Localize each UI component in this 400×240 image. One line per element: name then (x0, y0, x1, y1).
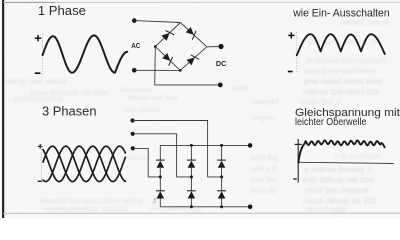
wire phase 3 feed (133, 148, 161, 177)
wire DC positive bus (160, 144, 250, 146)
axis (3-phase graph, dotted vertical) (40, 144, 42, 184)
waveform: phase L1 sine (43, 146, 125, 181)
axis (DC graph, vertical) (297, 139, 299, 183)
node DC output plus (218, 44, 223, 49)
wire bridge arm top-left (155, 23, 180, 47)
svg-text:1 Phase: 1 Phase (38, 3, 86, 18)
diode D5 (leg1 upper) (156, 160, 165, 168)
page spine bar (left edge) (2, 0, 4, 218)
wire leg3 upper segment (221, 145, 223, 160)
wire leg2 upper segment (190, 145, 192, 160)
wire leg2 lower segment (190, 198, 192, 206)
node DC bus plus terminal (248, 143, 253, 148)
waveform: DC with ripple (298, 140, 384, 162)
node phase node leg1 (159, 175, 162, 178)
wire leg3 middle segment (221, 168, 223, 191)
plus sign (rectified graph) (288, 32, 294, 38)
waveform: single-phase sine (43, 35, 128, 72)
svg-text:DC: DC (216, 61, 227, 68)
wire leg1 middle segment (159, 168, 161, 191)
time axis (DC graph, horizontal) (298, 162, 393, 163)
diode D10 (leg3 lower) (217, 191, 226, 199)
bleed-through text from reverse page (3, 18, 389, 214)
diode D9 (leg2 lower) (187, 191, 196, 199)
wire leg1 lower segment (159, 198, 161, 206)
node DC bus minus terminal (248, 205, 253, 210)
diode D3 (left-to-bottom arm) (162, 53, 172, 66)
node phase node leg3 (220, 175, 223, 178)
wire bridge arm top-right (180, 23, 206, 47)
minus tick (DC graph) (293, 178, 297, 180)
wire bridge arm bottom-right (180, 47, 207, 71)
diode D2 (top-to-right arm) (186, 27, 196, 40)
node phase input 3 (131, 146, 135, 150)
diode D1 (left-to-top arm) (161, 30, 174, 40)
wire bridge to DC plus (207, 46, 219, 48)
wire leg2 middle segment (190, 168, 192, 191)
node AC input top (132, 18, 137, 23)
wire leg1 upper segment (159, 145, 161, 160)
wire AC top to bridge (134, 21, 180, 23)
diode D6 (leg2 upper) (187, 160, 196, 168)
waveform: full-wave rectified humps (297, 34, 385, 55)
plus tick (DC graph) (295, 143, 302, 145)
wire phase 2 feed (133, 134, 192, 177)
wire bridge left to DC minus (155, 47, 219, 85)
node phase input 1 (130, 118, 134, 122)
wire phase 1 feed (133, 121, 222, 177)
svg-text:wie Ein- Ausschalten: wie Ein- Ausschalten (292, 8, 389, 20)
waveform: phase L2 sine (43, 146, 125, 181)
axis (rectified graph, dotted vertical) (296, 32, 298, 74)
minus sign (1-phase graph) (35, 72, 41, 74)
wire DC negative bus (160, 206, 250, 208)
node phase node leg2 (190, 175, 193, 178)
svg-text:AC: AC (131, 43, 140, 50)
top border line (3, 1, 400, 3)
waveform: phase L3 sine (43, 146, 125, 181)
plus sign (1-phase graph) (35, 35, 41, 41)
node bridge left vertex junction (154, 45, 157, 48)
axis (1-phase graph, dotted vertical) (41, 35, 43, 75)
minus sign (rectified graph) (288, 71, 293, 73)
node bridge bottom vertex junction (179, 69, 182, 72)
node junction leg3/top bus (220, 144, 223, 147)
diode D7 (leg3 upper) (217, 160, 226, 168)
diode D4 (bottom-to-right arm) (187, 55, 200, 65)
wire bridge arm bottom-left (155, 47, 180, 71)
svg-text:3 Phasen: 3 Phasen (42, 103, 97, 118)
node phase input 2 (131, 132, 135, 136)
node AC input bottom (132, 68, 137, 73)
wire leg3 lower segment (221, 198, 223, 206)
diode D8 (leg1 lower) (156, 191, 165, 199)
plus tick (3-phase graph) (38, 144, 43, 149)
svg-text:leichter Oberwelle: leichter Oberwelle (295, 116, 367, 128)
node DC output minus (218, 83, 223, 88)
node junction leg2/top bus (190, 144, 193, 147)
minus tick (3-phase graph) (38, 180, 42, 182)
node junction leg2/bottom bus (190, 205, 193, 208)
wire AC bottom to bridge (134, 69, 180, 71)
bottom border line (3, 212, 400, 214)
node junction leg3/bottom bus (220, 205, 223, 208)
